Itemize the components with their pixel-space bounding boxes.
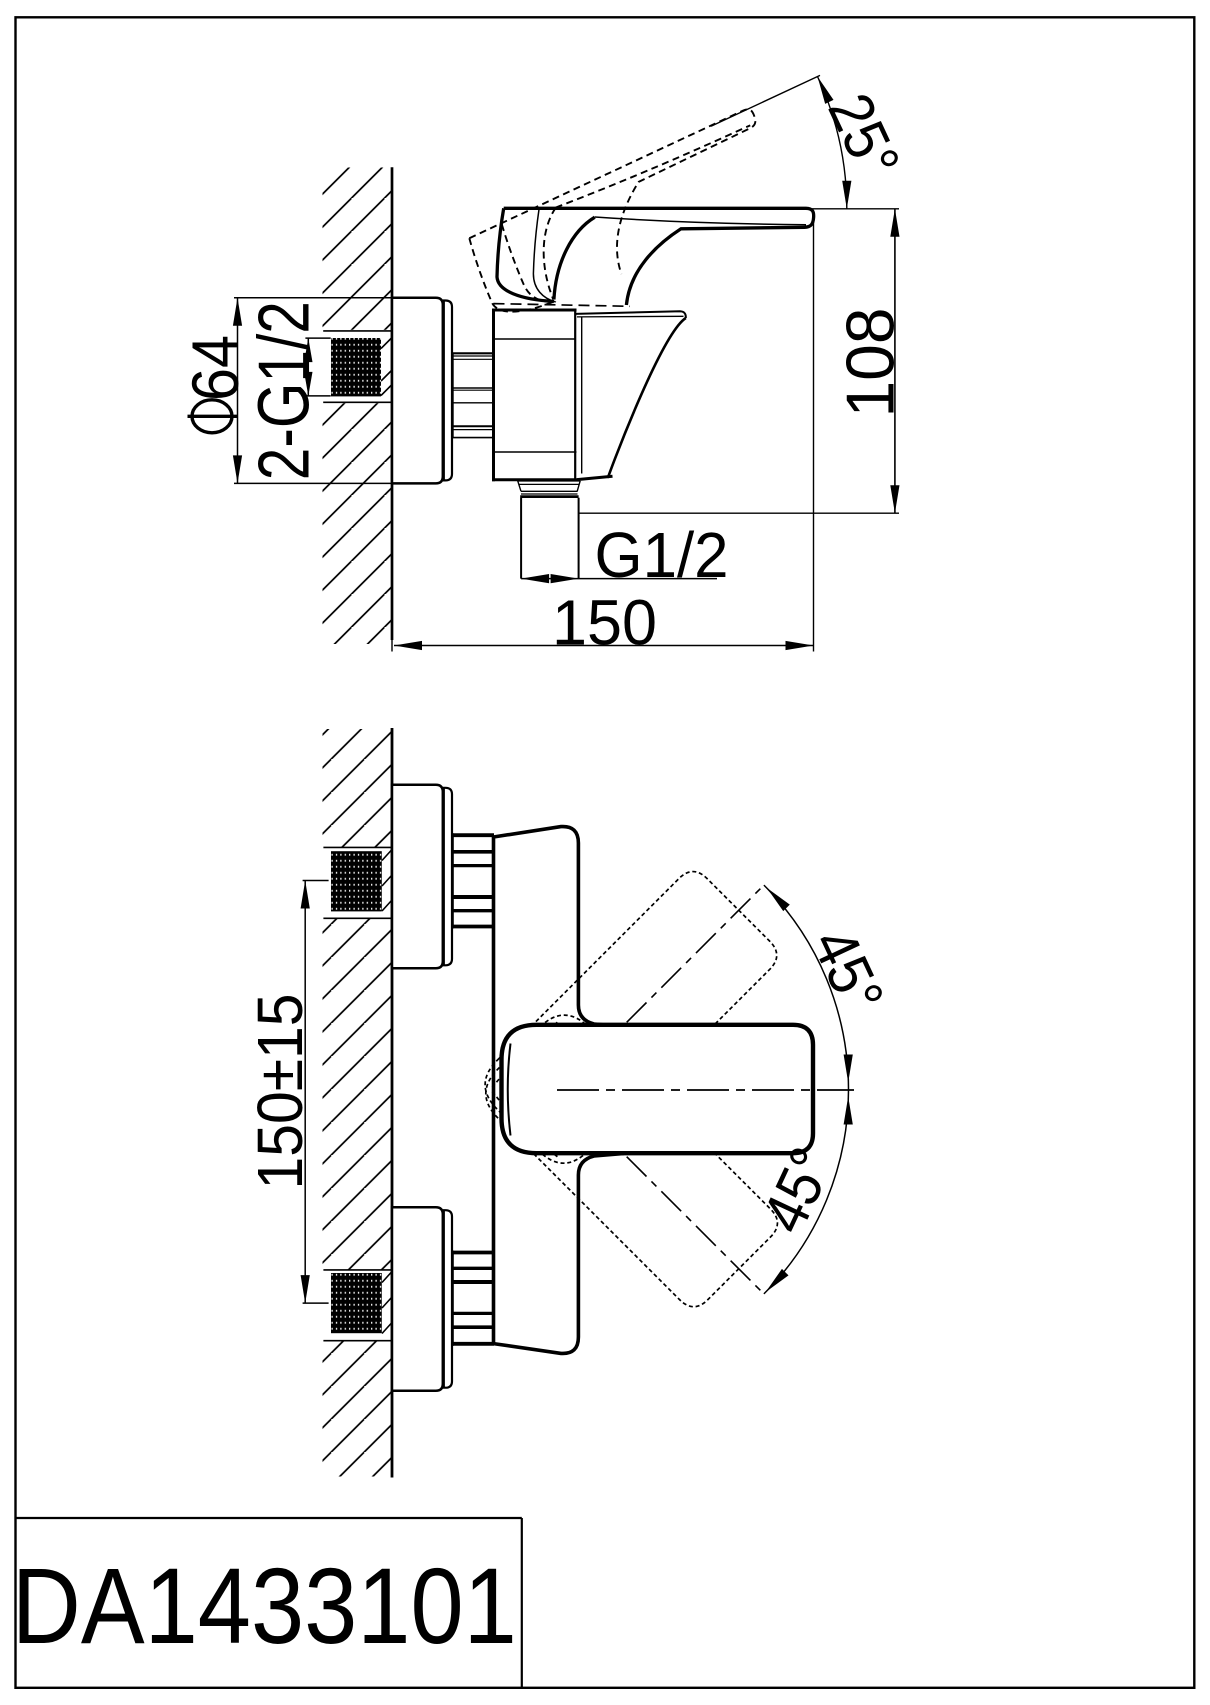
handle rotated -45° (dashed outline, front view) (473, 1003, 784, 1314)
spout top edges (top view) (575, 311, 686, 318)
handle centre line (dash-dot, front view) (557, 1089, 854, 1091)
wall hatching (front view) (323, 729, 393, 1477)
wall opening edge lines around inlet (top view) (323, 331, 392, 402)
dimension 150 (top view depth) (394, 213, 814, 652)
handle lever (solid, front view) (502, 1025, 814, 1153)
+45° handle axis (dash-dot) (627, 884, 766, 1023)
dimension G1/2 (outlet) (521, 578, 717, 580)
wall opening edges upper inlet (323, 847, 392, 1340)
upper union ladder (front view) (453, 833, 494, 928)
wall flange / escutcheon (top view) (392, 298, 443, 484)
handle raised 25° (dashed, top view) (463, 107, 791, 328)
thread size dimension (2-G1/2) extension lines (305, 338, 330, 396)
lower union ladder (front view) (453, 1251, 494, 1346)
25° angle: reference line at 25° (711, 75, 820, 126)
hatch bits near thread blocks (front view) (382, 850, 392, 1334)
wall surface line (top view) (391, 167, 394, 651)
handle rotated +45° (dashed outline, front view) (473, 864, 784, 1175)
wall surface line (front view) (391, 728, 394, 1478)
svg-text:64: 64 (178, 335, 252, 401)
faucet body (top view) (494, 310, 576, 480)
wall hatching (top view) (323, 168, 393, 645)
svg-text:G1/2: G1/2 (595, 519, 729, 591)
svg-text:108: 108 (833, 308, 909, 418)
svg-text:2-G1/2: 2-G1/2 (245, 301, 325, 480)
hatch bits between thread and wall (top view) (381, 338, 392, 396)
lower G1/2 threaded inlet (knurled) (331, 1273, 382, 1333)
-45° handle axis (dash-dot) (627, 1157, 766, 1296)
title block box (16, 1518, 522, 1688)
svg-text:150±15: 150±15 (244, 994, 316, 1190)
shower outlet stub (top view) (518, 481, 581, 579)
25° angle arc (818, 77, 847, 209)
G1/2 threaded inlet (knurled, top view) (331, 338, 381, 396)
svg-text:150: 150 (552, 587, 657, 659)
dimension φ64 extension lines (234, 298, 392, 484)
lower wall flange (front view) (392, 1207, 443, 1391)
svg-text:DA1433101: DA1433101 (12, 1545, 517, 1666)
upper 45° arc (764, 885, 849, 1089)
upper wall flange (front view) (392, 785, 443, 969)
handle lever (solid, top view) (497, 208, 814, 305)
flange cap (top view) (444, 301, 452, 481)
lower 45° arc (764, 1090, 849, 1294)
dashed base line under raised handle (494, 304, 631, 307)
faucet body (front view) (494, 827, 623, 1354)
dimension 150±15 (303, 881, 329, 1304)
dimension 108 (height) (579, 209, 899, 513)
union connector ladder (top view) (453, 353, 493, 437)
upper G1/2 threaded inlet (knurled) (331, 851, 382, 911)
spout front curve (top view) (608, 318, 686, 477)
